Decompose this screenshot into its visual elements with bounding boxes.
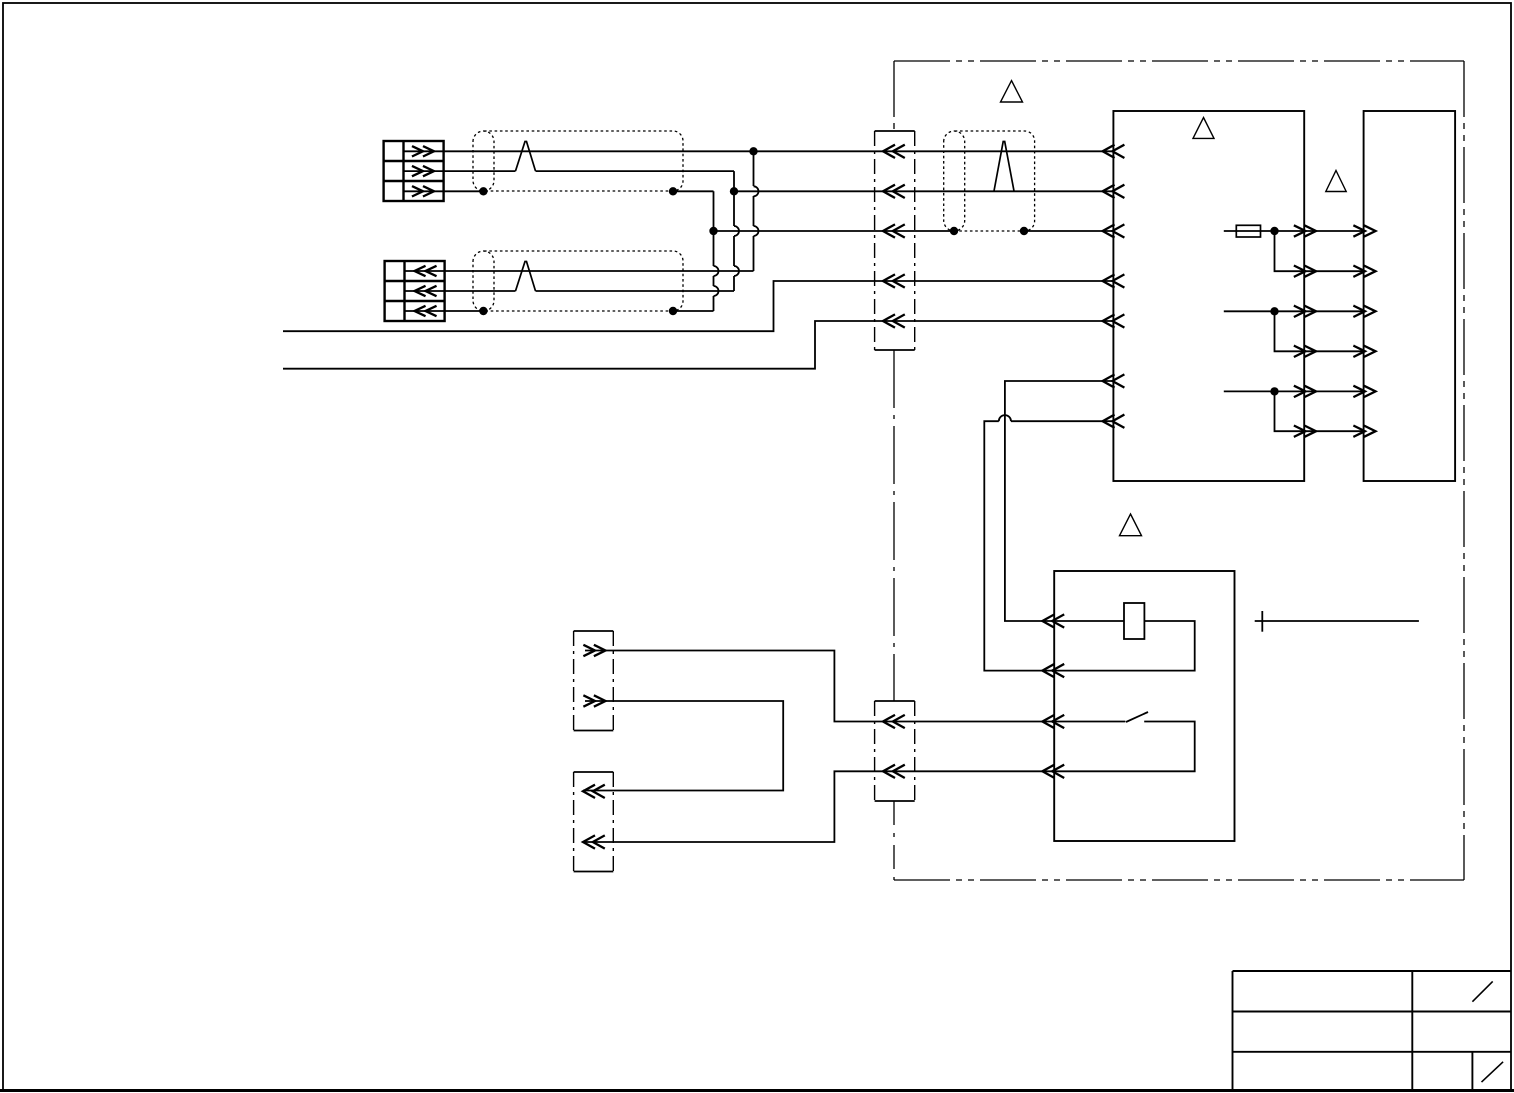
cable W1 twisted-pair peak symbol [516, 142, 536, 172]
hop of X1.2 riser over screen net [734, 226, 739, 236]
enclosure boundary left edge segment between connectors [893, 350, 895, 701]
riser from X1.2 down to net L2 junction and on to X2.2 wire [733, 171, 735, 291]
connector X6 body (inputs, dash-dot) [574, 772, 614, 872]
connector X5 body (outputs, dash-dot) [574, 631, 614, 731]
cable W1 screen junction dot left [479, 187, 487, 195]
relay unit K1 outline [1054, 571, 1234, 841]
wire: net L2 from junction to device A1 pin 2 [734, 190, 1113, 192]
fuse F1 on output row 1 [1224, 225, 1364, 237]
relay K1 input arrows << [1042, 615, 1063, 778]
wire output row 3 [1224, 310, 1364, 312]
wire: X1.1 signal to device A1 pin 1 (net L1) [404, 150, 1114, 152]
connector X6 pin arrows << [583, 785, 604, 848]
relay coil K1 [1054, 603, 1195, 671]
riser from cable W1 screen down to screens junction and cable W2 screen [713, 191, 715, 311]
enclosure boundary (dash-double-dot) [894, 61, 1464, 880]
device A2 outline [1364, 111, 1456, 481]
reference line with cross tick [1255, 611, 1419, 632]
connector X4 contact arrows << [883, 715, 904, 777]
note triangle 2 [1193, 118, 1214, 139]
wire: X2.1 input from riser [405, 270, 754, 272]
connector X3 contact arrows << [883, 145, 904, 327]
note triangle 3 [1326, 171, 1346, 192]
wire: relay coil feed from A1 pin (y=381) [1005, 381, 1114, 621]
bulkhead connector X4 body (dash-dot) [875, 701, 915, 801]
branch from row 5 to row 6 [1275, 391, 1364, 431]
wire: screen net to device A1 pin 3 [714, 230, 1114, 232]
junction output row 1 [1270, 227, 1278, 235]
riser from net L1 junction down to X2.1 wire [753, 151, 755, 271]
junction on net L1 [749, 147, 757, 155]
hop of screen riser over wire X2.2 [714, 286, 719, 296]
wire: X2.3 to cable W2 screen stubs [405, 310, 714, 312]
title block slash mark lower [1482, 1062, 1504, 1082]
bulkhead connector X3 body (dash-dot) [875, 131, 915, 350]
hop of X1.2 riser over wire X2.1 [734, 266, 739, 276]
cable W1 screen outline (dotted) [473, 131, 683, 191]
wire: X1.3 to cable W1 screen (solid stubs) [404, 190, 714, 192]
wire: X6.2 to X4.2 (switch return) [583, 771, 1054, 842]
cable W3 screen junction dot right [1020, 227, 1028, 235]
wire: X5.1 to X4.1 (switch feed) [585, 651, 1054, 722]
cable W2 screen junction dot right [669, 307, 677, 315]
cable W3 screen junction dot left [950, 227, 958, 235]
terminal X1 pin arrows >> [413, 147, 434, 196]
hop of screen riser over wire X2.1 [714, 266, 719, 276]
branch from row 3 to row 4 [1275, 311, 1364, 351]
cable W3 screen outline (dotted) [944, 131, 1035, 231]
device A1 input pin arrows << [1103, 145, 1124, 427]
device A2 input pin arrows >> [1354, 226, 1375, 437]
connector X5 pin arrows >> [584, 645, 605, 706]
hop of L1 riser over screen net [754, 226, 759, 236]
title block [1233, 971, 1512, 1090]
wire output row 5 [1224, 390, 1364, 392]
junction of screens at x=713.5 [709, 227, 717, 235]
hop of L1 riser over net L2 [754, 186, 759, 196]
wire: long net B from sheet edge to riser [283, 321, 1113, 369]
wire: long net A from sheet edge to riser [283, 281, 1113, 331]
cable W3 twisted-pair peak symbol [994, 142, 1014, 192]
enclosure boundary left edge segment below lower connector [893, 801, 895, 880]
terminal X2 pin arrows << [415, 266, 436, 315]
note triangle 4 [1120, 514, 1142, 536]
terminal block X1 (3 rows, output arrows) [384, 141, 444, 201]
wire: X2.2 input from riser, with peak gap [405, 290, 735, 292]
cable W2 twisted-pair peak symbol [516, 262, 536, 292]
cable W2 screen junction dot left [479, 307, 487, 315]
device A1 outline [1113, 111, 1304, 481]
hop of coil-return wire over coil-feed riser [999, 415, 1011, 421]
note triangle 1 [1001, 81, 1023, 102]
terminal block X2 (3 rows, input arrows) [385, 261, 445, 321]
junction output row 5 [1270, 387, 1278, 395]
junction of X1.2 riser onto net L2 [730, 187, 738, 195]
cable W2 screen outline (dotted) [473, 251, 683, 311]
title block slash mark upper [1472, 981, 1492, 1001]
branch from row 1 to row 2 [1275, 231, 1364, 271]
cable W1 screen junction dot right [669, 187, 677, 195]
wire: relay coil return to A1 pin (y=421) with hop [984, 421, 1113, 670]
wire: X5.2 loop back to X6.1 [583, 701, 783, 791]
switch contact S1 (normally open) [1054, 712, 1195, 771]
wire: X1.2 signal, runs to riser at x=734 [404, 170, 735, 172]
junction output row 3 [1270, 307, 1278, 315]
device A1 output pin arrows >> [1295, 226, 1316, 437]
